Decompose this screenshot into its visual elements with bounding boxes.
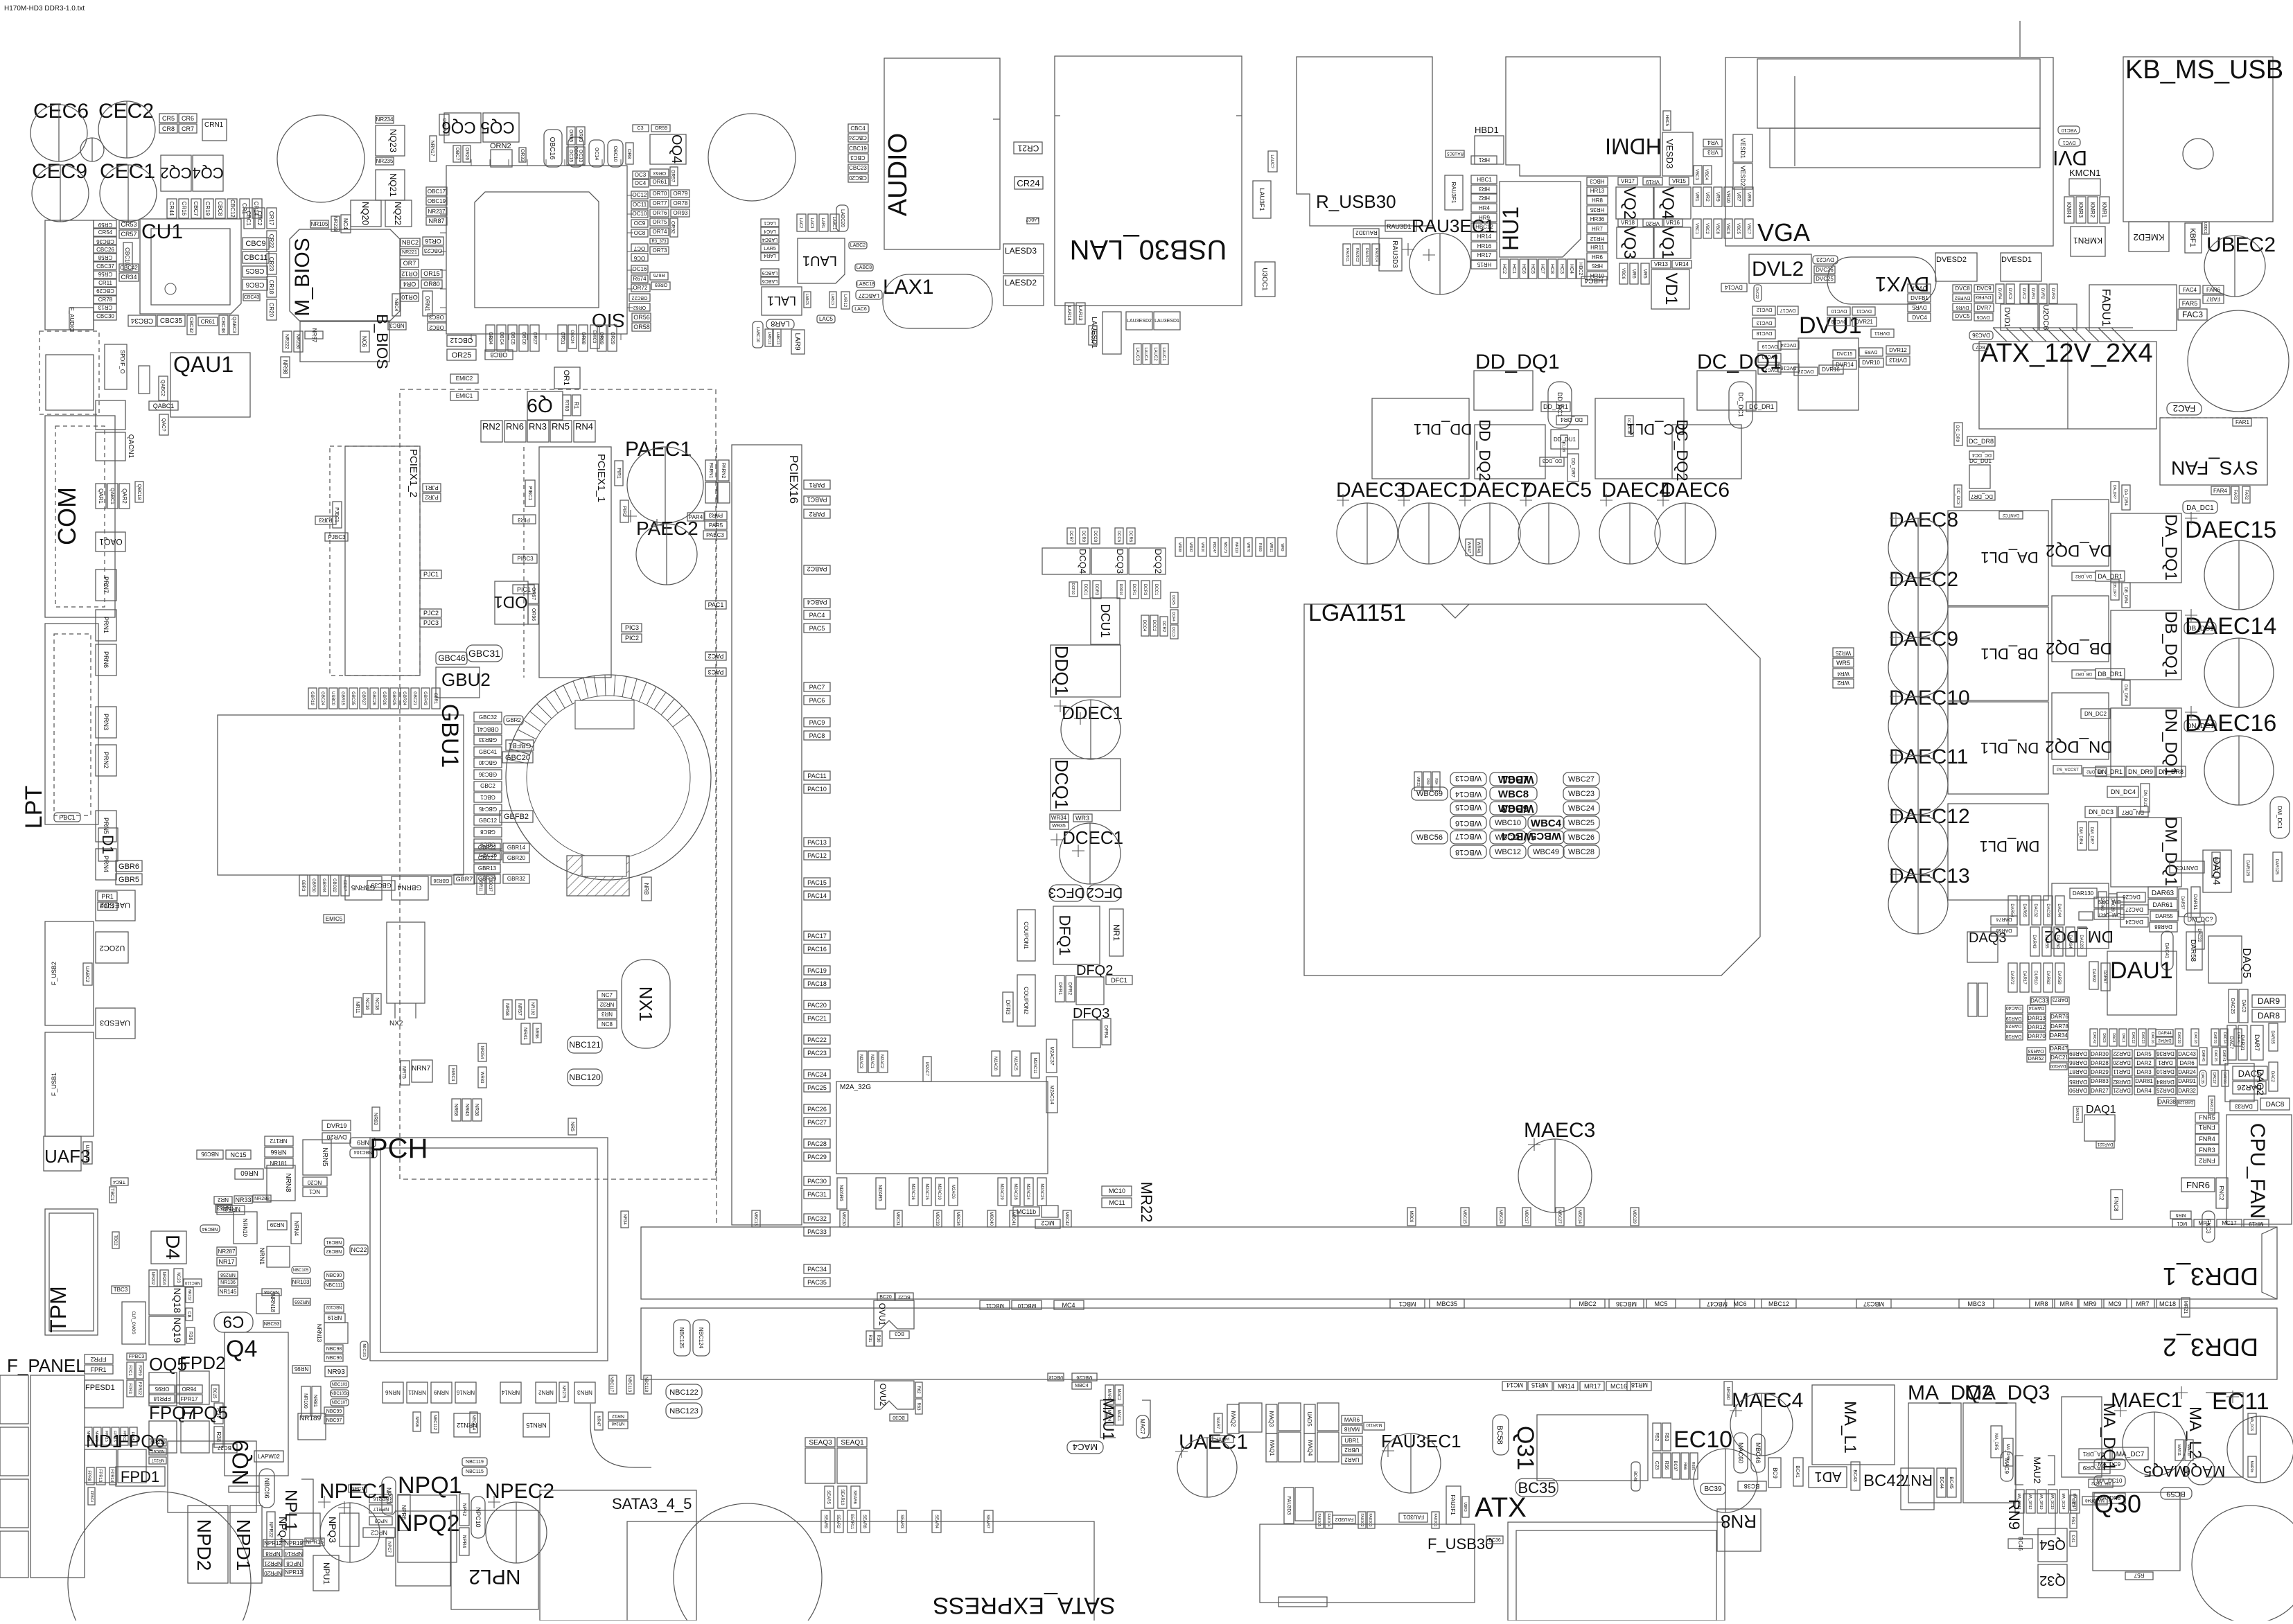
resistor GBR2 — [504, 716, 523, 725]
svg-text:DN_DR8: DN_DR8 — [2159, 768, 2184, 775]
svg-text:DAR11: DAR11 — [2113, 1068, 2131, 1075]
svg-text:DAC32: DAC32 — [2033, 903, 2037, 917]
part OBC4 — [497, 325, 506, 351]
part HC4 — [1567, 259, 1576, 279]
svg-text:GBC46: GBC46 — [438, 653, 466, 663]
svg-text:CBC24: CBC24 — [849, 134, 867, 141]
svg-text:NR97: NR97 — [311, 328, 317, 343]
svg-text:F_USB1: F_USB1 — [51, 1073, 58, 1096]
svg-text:SEAR9: SEAR9 — [823, 1515, 827, 1528]
svg-text:NR12: NR12 — [612, 1413, 624, 1418]
chip HU1 — [1500, 182, 1581, 257]
svg-text:WBC16: WBC16 — [1455, 819, 1482, 827]
part WR70 — [1244, 538, 1252, 556]
part DAC40 — [2005, 1005, 2023, 1013]
svg-text:WR34: WR34 — [1051, 815, 1067, 821]
part BC3 — [890, 1331, 909, 1339]
svg-text:DAEC3: DAEC3 — [1336, 479, 1405, 502]
part WR4 — [1833, 669, 1854, 678]
part HR11 — [1587, 243, 1608, 251]
svg-text:DAR44: DAR44 — [2158, 1032, 2172, 1036]
resistor LAR9 — [791, 330, 805, 354]
part BC22 — [895, 1293, 913, 1300]
part M2AC25 — [1037, 1178, 1046, 1206]
svg-text:MA_DC14: MA_DC14 — [2061, 1493, 2065, 1509]
part DAR127 — [2212, 852, 2220, 877]
part WR110 — [1232, 538, 1240, 556]
svg-text:DAR6: DAR6 — [2179, 1060, 2195, 1066]
diode NPD1 — [230, 1506, 262, 1583]
transistor CQ4 — [192, 155, 223, 191]
svg-text:DVC12: DVC12 — [1757, 307, 1773, 312]
svg-text:OBC2: OBC2 — [429, 324, 444, 330]
svg-text:COUPON1: COUPON1 — [1023, 921, 1029, 949]
svg-text:OR56: OR56 — [633, 314, 650, 321]
svg-text:DAR18: DAR18 — [2006, 1034, 2022, 1039]
capacitor NBC120 — [568, 1069, 602, 1086]
svg-text:NC22: NC22 — [351, 1246, 367, 1253]
svg-text:PABC1: PABC1 — [807, 496, 827, 503]
svg-text:NR11: NR11 — [355, 1001, 360, 1013]
part M2AR6 — [837, 1178, 847, 1209]
svg-text:DAR128: DAR128 — [2245, 860, 2249, 876]
part NR68 — [452, 1099, 461, 1121]
svg-text:OBC19: OBC19 — [428, 198, 446, 204]
part MBC47 — [1700, 1299, 1734, 1308]
part HR10 — [1587, 272, 1608, 280]
svg-text:C41: C41 — [2071, 1535, 2075, 1543]
svg-text:PIC2: PIC2 — [625, 635, 639, 642]
svg-text:NR217: NR217 — [151, 1458, 164, 1462]
svg-text:DANTC3: DANTC3 — [2175, 865, 2198, 871]
connector COUPON2 — [1017, 975, 1035, 1026]
svg-text:NR202: NR202 — [150, 1272, 155, 1285]
svg-text:CR61: CR61 — [201, 319, 216, 325]
svg-text:DN_DR9: DN_DR9 — [2128, 768, 2153, 775]
transistor DAQ5 — [2208, 936, 2252, 983]
part NR17 — [217, 1257, 236, 1266]
svg-text:DAR5: DAR5 — [2136, 1051, 2152, 1057]
svg-text:NR75: NR75 — [401, 1066, 406, 1079]
part DCC1 — [1152, 581, 1161, 599]
part LAR1 — [819, 214, 828, 231]
svg-text:DVC8: DVC8 — [1955, 285, 1970, 292]
part NPR17 — [369, 1505, 392, 1513]
svg-text:LABC11: LABC11 — [767, 332, 771, 344]
svg-text:HBC5: HBC5 — [1664, 115, 1669, 127]
connector F_USB2 — [45, 921, 94, 1025]
svg-text:MC10: MC10 — [1109, 1188, 1125, 1194]
svg-text:LAR5: LAR5 — [764, 247, 776, 251]
part DD_DC3 — [1540, 457, 1564, 466]
capacitor NBC123 — [666, 1403, 702, 1418]
part CBC32 — [187, 315, 196, 335]
svg-text:NBC123: NBC123 — [669, 1407, 699, 1415]
svg-text:NR269: NR269 — [295, 1299, 310, 1304]
resistor NR105 — [310, 220, 328, 228]
svg-text:CQ5: CQ5 — [480, 118, 514, 136]
part DC_DC3 — [1954, 485, 1962, 507]
svg-text:DDR3_1: DDR3_1 — [2163, 1262, 2258, 1291]
svg-text:NBC114: NBC114 — [471, 1415, 475, 1431]
part DVR10 — [1859, 358, 1883, 367]
svg-text:PAC4: PAC4 — [809, 612, 825, 619]
transistor Q31 — [1537, 1415, 1648, 1481]
part OC4 — [633, 179, 649, 187]
part M2AC29 — [998, 1178, 1007, 1206]
svg-text:WBC25: WBC25 — [1568, 819, 1594, 827]
svg-text:PCIEX1_2: PCIEX1_2 — [407, 449, 419, 497]
capacitor DAEC4 — [1599, 503, 1660, 564]
svg-text:BC59: BC59 — [2166, 1490, 2186, 1498]
part KMED2 — [2129, 222, 2169, 251]
resistor NR237 — [426, 207, 447, 215]
transistor DCQ1 — [1051, 759, 1121, 811]
part VR10 — [1724, 187, 1732, 206]
svg-text:PAC27: PAC27 — [807, 1119, 827, 1126]
svg-text:DVR9: DVR9 — [1865, 349, 1878, 354]
svg-text:WR2: WR2 — [1837, 680, 1850, 686]
svg-text:CR59: CR59 — [98, 222, 112, 228]
svg-text:D1: D1 — [99, 835, 116, 854]
part MA_DR1 — [2079, 1449, 2110, 1460]
svg-text:CR16: CR16 — [181, 202, 187, 216]
part CBC29 — [94, 288, 116, 295]
resistor CR5 — [159, 114, 177, 123]
svg-text:NRB: NRB — [643, 883, 649, 895]
svg-text:FNC2: FNC2 — [2218, 1186, 2224, 1201]
capacitor PAC6 — [804, 696, 830, 705]
part VR3 — [1703, 149, 1722, 157]
svg-text:CBC42: CBC42 — [120, 265, 138, 271]
svg-text:PAC15: PAC15 — [807, 879, 827, 886]
part OC13 — [577, 147, 585, 165]
part PIC3 — [622, 624, 642, 632]
resistor OR59 — [651, 125, 670, 132]
part LAUC? — [1268, 151, 1277, 172]
part PIBC1 — [525, 480, 535, 506]
capacitor PAC9 — [804, 718, 830, 727]
svg-text:OR97: OR97 — [531, 588, 536, 600]
part GBC37 — [486, 875, 495, 894]
resistor CR17 — [267, 208, 276, 229]
svg-text:WBC17: WBC17 — [1455, 832, 1482, 840]
part BC36 — [1486, 1536, 1503, 1544]
part OC7 — [631, 244, 648, 251]
svg-text:CR24: CR24 — [1017, 178, 1039, 188]
part DAC5 — [2233, 1066, 2267, 1080]
svg-text:USB30_LAN: USB30_LAN — [1070, 234, 1227, 265]
svg-text:MA_DR?2: MA_DR?2 — [2091, 1481, 2111, 1485]
part LABC1 — [830, 214, 839, 231]
part GBC21 — [411, 688, 419, 709]
part HC3 — [1558, 259, 1566, 279]
part DANTC3 — [2170, 861, 2204, 873]
part DAC16 — [2148, 1029, 2156, 1046]
part MAQ4 — [1304, 1433, 1315, 1462]
svg-text:HR1: HR1 — [1478, 157, 1490, 163]
capacitor FNC3 — [2202, 1211, 2215, 1242]
svg-text:DAC17: DAC17 — [2212, 1073, 2216, 1084]
svg-text:DAR36: DAR36 — [2156, 1050, 2175, 1057]
part HR17 — [1471, 251, 1497, 260]
svg-text:NR83: NR83 — [373, 1113, 378, 1125]
part MAR111 — [1213, 1436, 1233, 1442]
connector AUDIO — [884, 58, 1000, 249]
svg-text:USBC0: USBC0 — [331, 691, 335, 706]
svg-text:MR4: MR4 — [2059, 1300, 2073, 1307]
svg-text:OR88: OR88 — [581, 332, 586, 344]
diode VD1 — [1651, 270, 1689, 309]
capacitor DAEC12 — [1888, 815, 1948, 874]
part MBC4 — [1072, 1382, 1091, 1389]
part NBC102 — [324, 1305, 344, 1312]
svg-text:NPR22: NPR22 — [268, 1522, 273, 1538]
svg-text:M2AC16: M2AC16 — [911, 1183, 915, 1200]
transistor NQ21 — [376, 170, 405, 200]
part GBC40 — [474, 758, 502, 768]
svg-text:LAUC4: LAUC4 — [1143, 347, 1148, 361]
chip OVU1 — [874, 1300, 914, 1329]
svg-text:HC7: HC7 — [1540, 264, 1545, 274]
svg-text:DANTC2: DANTC2 — [2002, 513, 2019, 517]
part MA_DC14 — [2059, 1490, 2068, 1513]
svg-text:GBR13: GBR13 — [478, 865, 497, 872]
part NRN17 — [430, 136, 437, 161]
part NR145 — [218, 1287, 238, 1296]
transistor FPQ7 — [149, 1421, 177, 1453]
resistor PAR5 — [705, 521, 727, 529]
part NPR20 — [263, 1569, 282, 1576]
part DAR64 — [2066, 927, 2075, 956]
chip MAU2 — [2015, 1456, 2055, 1485]
svg-text:CBC43: CBC43 — [244, 295, 260, 300]
svg-text:EMIC2: EMIC2 — [456, 376, 473, 382]
capacitor DAEC16 — [2204, 736, 2274, 805]
svg-text:FAU3EC1: FAU3EC1 — [1381, 1431, 1461, 1451]
part NPR4 — [459, 1528, 469, 1555]
part DFR3 — [1003, 992, 1013, 1022]
part EMIC2 — [450, 374, 478, 383]
capacitor PAC4 — [804, 610, 830, 619]
capacitor PAR1 — [804, 480, 830, 489]
capacitor PAC10 — [804, 784, 830, 793]
svg-text:M2AC1: M2AC1 — [870, 1054, 874, 1069]
part NR287 — [217, 1247, 236, 1255]
svg-text:DAC43: DAC43 — [2178, 1051, 2196, 1057]
svg-text:CBC20: CBC20 — [849, 175, 867, 181]
svg-text:NPU1: NPU1 — [322, 1562, 331, 1585]
resistor OR83 — [577, 127, 585, 145]
capacitor OBC17 — [426, 187, 447, 195]
part LABC13 — [773, 329, 781, 346]
connector audio keepout — [39, 331, 99, 414]
resistor OR74 — [650, 228, 669, 236]
svg-text:VQ1: VQ1 — [1658, 226, 1677, 259]
part DAR65 — [2020, 896, 2029, 925]
transistor MAQ2 body — [1239, 1403, 1262, 1432]
svg-text:DAC24: DAC24 — [2125, 919, 2143, 925]
chip DAU1 — [2107, 951, 2177, 1015]
svg-text:CR21: CR21 — [1017, 143, 1039, 153]
capacitor OBC10 — [608, 140, 623, 167]
svg-text:WR82: WR82 — [1188, 542, 1193, 552]
capacitor PAC16 — [804, 944, 830, 953]
svg-text:Q4: Q4 — [226, 1336, 257, 1362]
part HR2 — [1471, 194, 1497, 202]
part NBC117 — [609, 1375, 617, 1394]
connector ATX 24pin — [1508, 1522, 1725, 1621]
part GBR33 — [474, 735, 502, 745]
svg-text:MAR11: MAR11 — [2177, 1445, 2181, 1456]
part WR2 — [1833, 679, 1854, 688]
hole small bottom right — [2187, 1457, 2215, 1485]
resistor GBR21 — [474, 854, 500, 863]
resistor QAR1 — [96, 484, 106, 509]
part NPR22 — [267, 1512, 275, 1547]
svg-text:NPR21: NPR21 — [264, 1560, 282, 1566]
svg-text:NR96: NR96 — [414, 1416, 419, 1427]
part SEAR8 — [861, 1510, 870, 1533]
resistor network NRN18 — [256, 1294, 279, 1314]
resistor OR92 — [670, 218, 678, 237]
svg-text:NC16: NC16 — [364, 998, 369, 1010]
transistor NQ23 — [376, 125, 405, 156]
svg-text:NR192: NR192 — [530, 1003, 534, 1016]
svg-text:OC16: OC16 — [633, 266, 647, 272]
svg-text:NBC120: NBC120 — [569, 1073, 601, 1082]
svg-text:DAR130: DAR130 — [2073, 890, 2094, 897]
svg-text:CBC8: CBC8 — [217, 201, 223, 216]
svg-text:HBC2: HBC2 — [1578, 263, 1583, 276]
inductor NPL1 — [281, 1479, 313, 1542]
svg-text:OR76: OR76 — [653, 210, 667, 216]
part R30 — [875, 1331, 882, 1346]
svg-text:Q9: Q9 — [527, 395, 552, 416]
part HBC12 — [1471, 223, 1497, 231]
part NC20 — [303, 1177, 327, 1186]
svg-text:PAC3: PAC3 — [708, 669, 724, 676]
svg-text:NBC67: NBC67 — [151, 1449, 165, 1453]
part CR16 — [179, 199, 188, 218]
part DFR4 — [1102, 1018, 1111, 1045]
svg-text:WBC49: WBC49 — [1533, 848, 1559, 856]
svg-text:DAR17: DAR17 — [2022, 971, 2026, 985]
chip FADU1 — [2089, 285, 2177, 330]
part DVC4 — [1908, 313, 1931, 321]
resistor GBR14 — [503, 843, 529, 852]
resistor PAR4 — [687, 513, 704, 521]
part PIC1 — [513, 585, 534, 594]
part M2AC5 — [1012, 1051, 1020, 1076]
svg-text:MBC18: MBC18 — [1048, 1375, 1063, 1379]
connector PCIEX1_1 — [524, 447, 611, 678]
connector ATX_12V_2X4 — [1979, 328, 2156, 429]
resistor CR8 — [159, 124, 177, 133]
transistor OQ5 — [149, 1373, 177, 1406]
svg-text:FAC2: FAC2 — [2173, 403, 2196, 414]
svg-text:PAC12: PAC12 — [807, 852, 827, 859]
svg-text:GBR26: GBR26 — [382, 691, 386, 705]
svg-text:PAC22: PAC22 — [807, 1036, 827, 1043]
part HR3 — [1471, 185, 1497, 193]
svg-text:PABC3: PABC3 — [706, 532, 724, 538]
svg-text:DVC11: DVC11 — [1856, 308, 1872, 313]
svg-text:R36: R36 — [188, 1332, 193, 1341]
svg-text:LABC6: LABC6 — [762, 279, 777, 283]
svg-text:LABC1: LABC1 — [832, 216, 836, 230]
part CR44 — [167, 199, 177, 218]
svg-text:DAR20: DAR20 — [2113, 1059, 2131, 1066]
transistor FPQ6 — [118, 1449, 146, 1483]
svg-text:BC39: BC39 — [1704, 1485, 1721, 1493]
svg-text:OR12: OR12 — [401, 270, 418, 277]
resistor PAR3 — [705, 511, 727, 520]
capacitor DAEC1 — [1398, 503, 1459, 564]
svg-text:MA_DR5: MA_DR5 — [1994, 1433, 1998, 1451]
part FAR7 — [2203, 295, 2224, 303]
capacitor MAEC4 — [1730, 1393, 1793, 1456]
part DAR67 — [2101, 963, 2110, 991]
part M2AC3 — [858, 1051, 867, 1073]
capacitor GBC46 — [436, 652, 467, 664]
part SEAR6 — [851, 1486, 860, 1508]
svg-text:MAR9b: MAR9b — [2249, 1461, 2254, 1473]
svg-text:FAR3: FAR3 — [2233, 489, 2237, 500]
part OC6 — [631, 254, 648, 261]
resistor network PRN3 — [96, 707, 116, 738]
svg-text:DAR58: DAR58 — [2189, 939, 2197, 962]
svg-text:AUDIO: AUDIO — [884, 133, 913, 216]
svg-text:FPC1: FPC1 — [128, 1365, 132, 1376]
part HR35 — [1587, 206, 1608, 214]
part DAR78 — [2050, 1022, 2068, 1030]
capacitor OBC3 — [428, 314, 446, 321]
part CR56 — [94, 271, 116, 279]
capacitor MAC60 — [1734, 1433, 1748, 1473]
part MAR110 — [1364, 1422, 1385, 1430]
svg-text:CR20: CR20 — [268, 303, 274, 317]
part WR46 — [1476, 539, 1482, 556]
svg-text:FPESD1: FPESD1 — [85, 1384, 115, 1392]
svg-text:DC_DC4: DC_DC4 — [1972, 452, 1992, 457]
part NBC119 — [462, 1458, 487, 1466]
part LAC2 — [797, 214, 806, 231]
resistor RN9 — [2005, 1494, 2055, 1535]
part NR204 — [160, 1270, 168, 1287]
chip NPL2 — [451, 1510, 538, 1609]
part NR60 — [235, 1169, 263, 1179]
svg-text:RAU3C1: RAU3C1 — [1345, 248, 1349, 262]
part CBC8 — [216, 199, 225, 218]
svg-text:MAR111: MAR111 — [1216, 1436, 1229, 1440]
svg-text:DAR73: DAR73 — [2053, 997, 2068, 1002]
svg-text:PAC1: PAC1 — [708, 601, 724, 608]
part LAR12 — [841, 292, 850, 309]
svg-text:MC16: MC16 — [1610, 1383, 1627, 1390]
svg-text:DAC33: DAC33 — [2046, 903, 2050, 917]
svg-text:FAU3C1: FAU3C1 — [1433, 1514, 1437, 1527]
part GBR25 — [390, 688, 398, 709]
fuse LAU3F1 — [1253, 181, 1271, 218]
svg-text:OC14: OC14 — [594, 148, 599, 160]
capacitor PAC25 — [804, 1083, 830, 1092]
transistor SEAQ3 body — [805, 1448, 835, 1483]
capacitor OBC2 — [428, 323, 446, 330]
part UBR2 — [1342, 1446, 1362, 1454]
svg-text:HR8: HR8 — [1592, 197, 1604, 204]
part FAU3C5 — [1316, 1512, 1324, 1528]
